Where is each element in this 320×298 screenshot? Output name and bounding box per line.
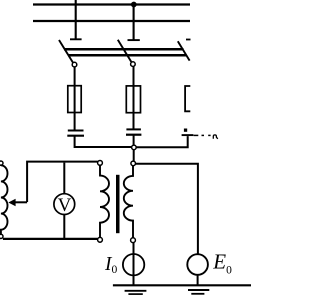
wire: [74, 67, 76, 130]
wire (measuring loop top): [27, 162, 98, 202]
wire (measuring loop bottom): [3, 238, 98, 240]
ground (I0 branch): [125, 291, 147, 294]
voltmeter PV: [54, 163, 75, 238]
bus line L2: [33, 20, 190, 22]
svg-text:I0: I0: [104, 254, 118, 276]
feeder tap wire W1: [70, 0, 82, 39]
svg-text:V: V: [58, 195, 72, 216]
wire: [133, 136, 135, 146]
wire: [133, 150, 135, 162]
disconnect switch QS3 (partial): [178, 40, 191, 61]
variable autotransformer T2: [0, 161, 8, 238]
wire: [133, 242, 135, 284]
wire: [136, 136, 187, 147]
mark k: [213, 135, 218, 139]
disconnect switch QS1: [59, 40, 77, 67]
capacitor C1: [67, 131, 84, 136]
wiper arrow: [8, 199, 27, 207]
wire: [75, 137, 132, 148]
node A (junction dot on L1): [131, 2, 137, 8]
terminal cap: [182, 134, 194, 136]
capacitor C2: [126, 129, 141, 134]
ground (E0 branch): [188, 290, 209, 294]
wire: [133, 66, 135, 128]
fuse FU3 (partial): [185, 86, 190, 111]
node K2 (transformer T1 right winding top terminal): [131, 161, 136, 166]
wire: [136, 164, 198, 254]
fuse FU2: [126, 86, 140, 113]
disconnect switch QS2: [118, 40, 135, 67]
voltage source E0: [187, 254, 208, 275]
svg-text:E0: E0: [212, 250, 232, 277]
wire: [197, 275, 199, 285]
transformer T1: [98, 161, 136, 243]
bus line L1: [33, 3, 190, 5]
busbar section line A: [64, 48, 184, 51]
node K1: [132, 145, 137, 150]
current source I0: [123, 254, 144, 275]
fuse FU1: [68, 86, 81, 113]
dashed continuation: [194, 134, 211, 136]
feeder tap wire W2: [128, 5, 140, 41]
square mark: [184, 129, 187, 132]
ground bus: [113, 284, 251, 286]
busbar section line B: [68, 54, 187, 57]
